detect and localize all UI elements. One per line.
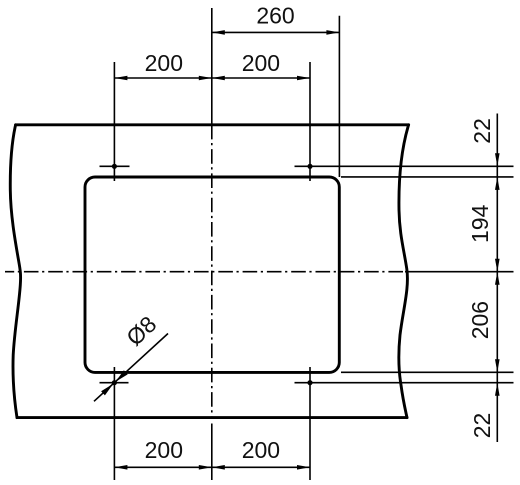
extension line hole column right top bbox=[309, 62, 311, 181]
dimension 200 top line bbox=[114, 77, 310, 79]
svg-text:22: 22 bbox=[469, 118, 495, 144]
svg-text:206: 206 bbox=[467, 301, 493, 339]
hole top-left bbox=[112, 164, 117, 169]
dimension 22 bottom line bbox=[496, 372, 498, 442]
dimension 206 line bbox=[496, 272, 498, 373]
extension line cutout top edge right bbox=[341, 176, 514, 178]
leader line for hole diameter bbox=[94, 334, 168, 402]
extension line hole column right bottom bbox=[309, 367, 311, 480]
svg-text:200: 200 bbox=[242, 50, 280, 76]
vertical centerline bbox=[211, 8, 213, 125]
svg-text:200: 200 bbox=[145, 50, 183, 76]
left break line bbox=[10, 125, 20, 418]
leader arrowhead upper bbox=[116, 370, 128, 382]
panel top edge bbox=[16, 123, 409, 126]
svg-text:200: 200 bbox=[242, 437, 280, 463]
svg-text:260: 260 bbox=[256, 3, 294, 29]
extension line hole column left top bbox=[113, 62, 115, 181]
svg-text:194: 194 bbox=[467, 204, 493, 243]
extension line hole row top right bbox=[295, 165, 514, 167]
dimension 260 line bbox=[212, 31, 340, 33]
svg-text:200: 200 bbox=[145, 437, 183, 463]
extension line cutout bottom edge right bbox=[341, 371, 514, 373]
extension line hole column left bottom bbox=[113, 367, 115, 480]
hole bottom-right bbox=[307, 380, 312, 385]
cutout rounded rectangle bbox=[85, 177, 339, 372]
right break line bbox=[399, 125, 409, 418]
dimension 22 top line bbox=[496, 114, 498, 167]
panel bottom edge bbox=[17, 416, 407, 419]
extension line cutout right edge (260 dim) bbox=[338, 16, 340, 177]
horizontal centerline bbox=[5, 271, 405, 273]
leader arrowhead lower bbox=[101, 384, 113, 396]
hole bottom-left bbox=[112, 380, 117, 385]
svg-text:22: 22 bbox=[469, 413, 495, 439]
hole top-right bbox=[307, 164, 312, 169]
dimension 200 bottom line bbox=[114, 466, 310, 468]
extension line hole row bottom right bbox=[295, 382, 514, 384]
dimension 194 line bbox=[496, 166, 498, 271]
